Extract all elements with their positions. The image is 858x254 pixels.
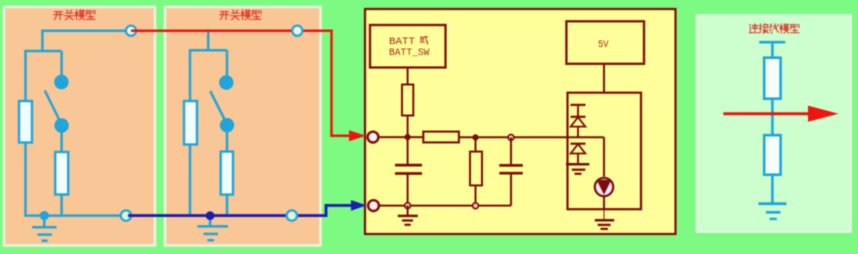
diode: D1 triangle — [571, 117, 586, 126]
resistor: horizontal filter — [423, 132, 459, 143]
wire: panel2 left lower — [189, 145, 192, 216]
wire: panel1 below switch — [60, 129, 63, 152]
resistor: panel2 left — [184, 101, 197, 145]
junction: bottom ring 1 — [405, 203, 411, 209]
ground: panel2 — [198, 216, 229, 241]
ground: below LED — [595, 209, 614, 229]
wire: BATT box to resistor — [407, 68, 409, 85]
wire: bottom rail — [379, 205, 511, 207]
switch: panel2 lever — [210, 91, 227, 124]
wire: panel2 split bar — [190, 49, 227, 52]
junction: panel2 ground node (blue net) — [206, 211, 215, 220]
svg-text:BATT_SW: BATT_SW — [389, 47, 430, 59]
svg-text:5V: 5V — [598, 39, 609, 51]
diode: D2 anode stub — [577, 154, 579, 164]
terminal: panel2 top output — [292, 26, 302, 36]
resistor: panel2 lower — [221, 152, 233, 195]
junction: bottom ring 2 — [473, 203, 479, 209]
label 开关模型 (panel 2) — [220, 10, 261, 20]
wire: panel2 top stub — [207, 31, 210, 51]
terminal: panel1 bottom output — [121, 210, 131, 220]
wire: panel1 resistor to rail — [60, 195, 63, 216]
wire: node to LED — [603, 137, 605, 176]
capacitor: C1 at node A — [395, 137, 422, 206]
wire: panel1 split bar — [26, 50, 62, 53]
panel: switch model 2 — [165, 7, 321, 246]
wire: panel1 left branch — [24, 50, 27, 101]
switch: panel1 bottom contact — [54, 118, 68, 132]
ground: below node A — [398, 206, 418, 225]
terminal: battery panel input 1 — [368, 132, 379, 143]
label: BATT 或 — [389, 36, 428, 48]
diode: D2 triangle — [571, 144, 586, 153]
wire: top rail middle — [459, 136, 604, 138]
capacitor: C2 at node C — [499, 137, 523, 205]
ground: below D2 — [566, 164, 589, 174]
panel: switch model 1 — [4, 7, 155, 246]
arrow: red crossing — [723, 106, 838, 122]
box: regulator sub-circuit — [568, 93, 642, 210]
diode: D1 stub — [577, 105, 579, 117]
wire: panel2 switch stub — [226, 50, 229, 76]
label 连接线模型 (right panel) — [749, 24, 799, 34]
LED: indicator — [595, 178, 613, 196]
diode: D2 cathode bar — [571, 143, 586, 145]
ground: panel1 — [32, 216, 56, 241]
wire: panel2 resistor to rail — [226, 195, 229, 216]
switch: panel1 lever — [45, 91, 62, 125]
arrowhead: red into battery panel — [349, 130, 366, 141]
resistor: panel1 left — [19, 101, 32, 143]
junction: panel1 ground node — [40, 211, 49, 220]
wire: panel1 switch stub — [60, 51, 63, 76]
wire: panel1 left lower — [26, 143, 127, 216]
resistor: vertical at node B — [470, 137, 482, 205]
wire: resistor to ground — [771, 175, 774, 204]
wire: red net top — [131, 31, 352, 136]
terminal: battery panel input 2 — [368, 200, 379, 211]
switch: panel2 top contact — [219, 75, 233, 89]
diode: D1 anode stub — [577, 127, 579, 138]
resistor: connection upper — [764, 58, 780, 99]
diode: D1 cathode bar — [571, 116, 586, 118]
wire: connection model top bar — [759, 41, 785, 44]
resistor: battery series — [402, 85, 413, 116]
switch: panel2 bottom contact — [220, 118, 234, 132]
wire: panel2 below switch — [226, 129, 229, 152]
arrowhead: blue into battery panel — [351, 200, 367, 211]
junction: node C (ring) — [508, 135, 514, 141]
label 开关模型 (panel 1) — [54, 10, 95, 20]
terminal: panel2 bottom output — [287, 210, 297, 220]
panel: connection line model — [697, 15, 852, 232]
wire: resistor to node — [407, 116, 409, 138]
box: BATT 或 BATT_SW — [370, 25, 446, 68]
wire: 5V to sub-circuit — [603, 64, 605, 93]
svg-text:BATT: BATT — [389, 36, 415, 48]
wire: top bar to resistor — [771, 42, 774, 58]
wire: LED to box bottom — [603, 196, 605, 209]
resistor: panel1 lower — [55, 152, 68, 195]
panel: battery model (yellow) — [365, 9, 676, 234]
junction: node A — [405, 134, 411, 140]
resistor: connection lower — [764, 135, 780, 175]
wire: top rail left — [379, 136, 424, 138]
switch: panel1 top contact — [54, 75, 68, 89]
ground: connection model — [759, 204, 787, 219]
wire: blue net bottom — [128, 205, 352, 215]
wire: panel1 top — [42, 31, 131, 51]
box: 5V source — [566, 21, 644, 64]
wire: between resistors — [771, 99, 774, 136]
wire: panel2 left branch — [189, 49, 192, 101]
terminal: panel1 top output — [126, 26, 136, 36]
junction: node B — [472, 134, 478, 140]
diode: D1 zener top bar — [571, 104, 586, 106]
